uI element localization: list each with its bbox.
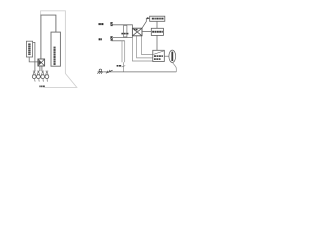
earth symbol <box>99 69 102 72</box>
wire W2 converter to sensor <box>137 36 153 58</box>
wire U2 to sensor <box>156 35 158 50</box>
wire stubs below circles <box>35 79 48 81</box>
electronic box U2 <box>151 28 163 35</box>
electronic box U1 <box>51 32 60 66</box>
shield connection symbol <box>106 70 113 73</box>
module contour <box>41 11 77 88</box>
status S1 vertical microtext <box>28 43 30 55</box>
terminal circles <box>32 75 49 79</box>
module type microtext <box>39 86 44 88</box>
system box microtext <box>152 18 164 20</box>
cable microlabel <box>117 65 122 67</box>
wire system to electronic <box>156 21 158 28</box>
connector stub <box>164 55 169 57</box>
cable pair wires <box>122 41 125 72</box>
module frame K1 <box>41 15 56 59</box>
filter capacitor C1 <box>124 25 127 37</box>
wire S1 to converter <box>29 57 38 62</box>
wire W3 converter to sensor <box>142 36 153 55</box>
dc-dc converter X1 <box>38 59 45 66</box>
cable tick <box>122 66 126 67</box>
field clamp 0V <box>110 36 112 40</box>
arrow to system box <box>142 18 148 28</box>
wire W1 0V to sensor <box>132 38 152 61</box>
shield drain wire <box>172 62 176 72</box>
clamp contacts row <box>33 71 49 75</box>
wire 0V rail <box>113 36 133 38</box>
field clamp 24V <box>110 22 112 26</box>
label 24V <box>99 23 104 25</box>
electronic U1 vertical microtext <box>54 47 56 65</box>
ground rail <box>103 71 176 73</box>
C1 value microtext <box>121 33 128 35</box>
wire X2 to electronic <box>142 31 151 33</box>
sensor box <box>153 50 165 61</box>
connector ellipse <box>169 50 176 62</box>
wire 0V lower branch <box>112 40 125 42</box>
wire 24V rail <box>113 25 133 28</box>
status box S1 <box>26 41 32 57</box>
system supply box <box>150 16 165 21</box>
label 0V <box>99 38 102 40</box>
wire S1 to clamp 1 <box>33 42 35 71</box>
wire X1 to clamp 3 <box>41 66 43 71</box>
U2 microtext <box>152 31 163 33</box>
sensor diagonal <box>153 51 163 54</box>
sensor microtext row2 <box>154 58 161 60</box>
wire X1 to clamp 2 <box>39 66 41 71</box>
sensor microtext row1 <box>154 55 163 57</box>
dc-dc converter X2 <box>132 28 142 36</box>
